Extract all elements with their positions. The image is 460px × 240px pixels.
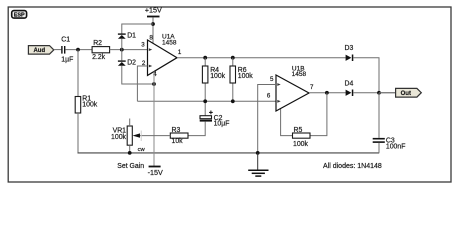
svg-text:R5: R5: [294, 127, 303, 134]
node D2 junction: [152, 82, 156, 86]
svg-text:Out: Out: [401, 91, 411, 97]
svg-text:100k: 100k: [293, 141, 308, 148]
node R5 feedback tap: [325, 91, 329, 95]
svg-text:100nF: 100nF: [386, 144, 406, 151]
wire U1B output: [309, 92, 346, 94]
wire +15V to D1: [122, 24, 153, 34]
svg-text:7: 7: [310, 84, 314, 91]
svg-text:100k: 100k: [82, 102, 97, 109]
potentiometer VR1: [111, 119, 145, 170]
resistor R6: [230, 66, 253, 83]
node R4 top: [203, 56, 207, 60]
wire R4 stubs: [204, 58, 206, 66]
svg-text:ESP: ESP: [14, 13, 25, 19]
svg-text:C1: C1: [61, 37, 70, 44]
svg-text:1µF: 1µF: [61, 57, 73, 64]
svg-text:8: 8: [149, 34, 153, 41]
svg-text:All diodes: 1N4148: All diodes: 1N4148: [323, 163, 382, 170]
power -15V: [148, 166, 163, 178]
wire R3 to VR1 wiper: [137, 135, 171, 137]
svg-text:D3: D3: [345, 45, 354, 52]
wire U1A output line: [177, 57, 346, 59]
power +15V: [145, 5, 162, 17]
svg-text:Set Gain: Set Gain: [117, 163, 144, 170]
wire D2 to -15V line: [122, 66, 154, 84]
svg-text:D2: D2: [127, 59, 136, 66]
logo ESP: [12, 11, 27, 19]
node R4 bottom: [203, 99, 207, 103]
wire Aud to C1: [54, 49, 62, 51]
wire R1 top: [77, 50, 79, 97]
wire R2 to U1A pin3: [110, 49, 148, 51]
wire U1A pin4 to -15V: [153, 72, 155, 166]
svg-text:1458: 1458: [162, 39, 177, 46]
wire D1 to node B: [121, 39, 123, 50]
diode D2: [118, 59, 136, 66]
op-amp U1B: [267, 66, 314, 111]
diode D4: [345, 80, 354, 96]
svg-text:100k: 100k: [111, 134, 126, 141]
wire R1 bottom to rail: [77, 113, 79, 153]
node input junction: [76, 48, 80, 52]
svg-text:cw: cw: [138, 147, 146, 153]
node +15V junction: [151, 22, 155, 26]
svg-text:1: 1: [178, 49, 182, 56]
node ground junction: [256, 151, 260, 155]
node VR1 bottom: [128, 151, 132, 155]
resistor R2: [92, 40, 110, 61]
node B junction: [120, 48, 124, 52]
capacitor C2: [200, 111, 230, 128]
resistor R1: [75, 96, 98, 114]
svg-text:R3: R3: [172, 127, 181, 134]
diode D1: [118, 32, 136, 39]
svg-text:6: 6: [267, 93, 271, 100]
resistor R5: [293, 127, 311, 148]
node R6 top: [231, 56, 235, 60]
diode D3: [345, 45, 354, 61]
capacitor C1: [61, 37, 73, 64]
svg-text:Aud: Aud: [33, 48, 45, 54]
wire node B to D2: [121, 50, 123, 61]
wire R6 stubs: [232, 58, 234, 66]
wire C3 top: [378, 93, 380, 138]
svg-text:D4: D4: [345, 80, 354, 87]
wire +15V stem: [152, 17, 154, 43]
wire U1B pin5 to ground: [258, 85, 276, 153]
svg-text:5: 5: [270, 76, 274, 83]
note all diodes: [323, 163, 382, 170]
wire R5 right riser: [310, 93, 327, 136]
svg-text:1458: 1458: [292, 71, 307, 78]
svg-text:R2: R2: [93, 40, 102, 47]
port Aud input tag: [28, 46, 53, 55]
node R6 bottom: [231, 99, 235, 103]
wire D4 to Out: [353, 92, 395, 94]
svg-text:100k: 100k: [210, 73, 225, 80]
wire C3 bottom to rail: [378, 143, 380, 153]
wire C1 to R2: [65, 49, 92, 51]
svg-text:-15V: -15V: [148, 168, 163, 177]
svg-text:100k: 100k: [238, 73, 253, 80]
border frame: [8, 7, 451, 182]
wire ground rail: [78, 152, 380, 154]
wire feedback node F: [137, 101, 292, 135]
ground: [248, 153, 268, 176]
wire D3 to output node: [353, 58, 379, 93]
capacitor C3: [373, 137, 406, 150]
node output junction: [377, 91, 381, 95]
resistor R4: [202, 66, 225, 83]
wire C2 bottom to R3: [188, 122, 205, 136]
svg-text:+15V: +15V: [145, 5, 162, 14]
port Out tag: [379, 88, 421, 97]
wire U1A pin2 loop: [137, 66, 147, 101]
svg-text:10k: 10k: [172, 138, 184, 145]
resistor R3: [170, 127, 188, 145]
svg-text:2.2k: 2.2k: [92, 54, 106, 61]
svg-text:D1: D1: [127, 32, 136, 39]
svg-text:10µF: 10µF: [214, 121, 230, 128]
svg-text:3: 3: [141, 42, 145, 49]
op-amp U1A: [141, 33, 182, 78]
